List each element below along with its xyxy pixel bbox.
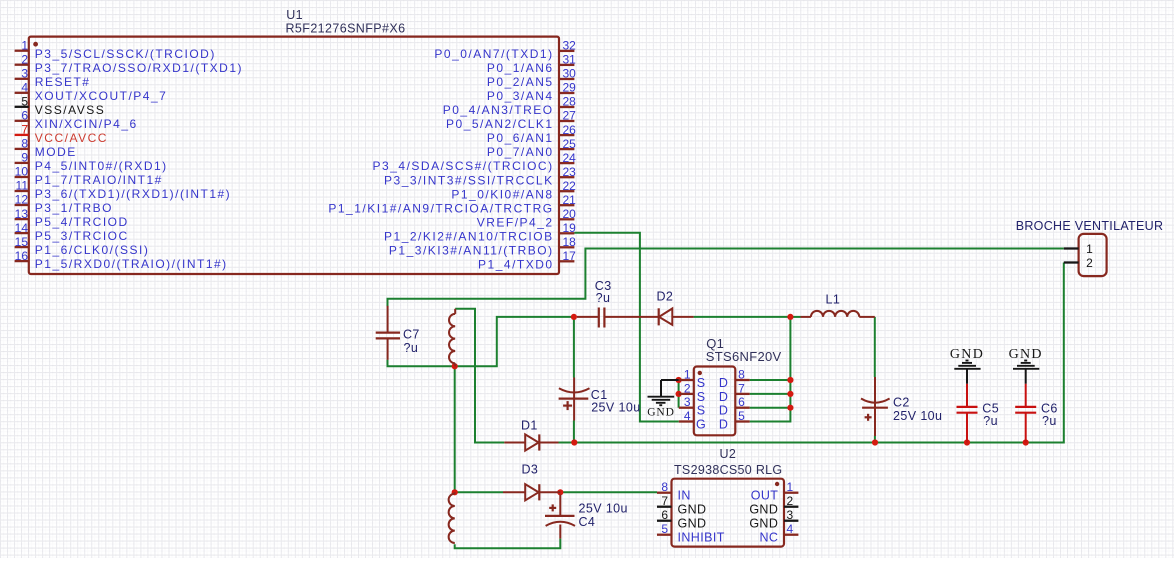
junction C6 rail node xyxy=(1023,439,1029,445)
wire: D1 cathode to node xyxy=(559,442,575,444)
wire: winding junction to D3 anode xyxy=(455,491,503,493)
U1 pin 21 (P1_1/KI1#/AN9/TRCIOA/TRCTRG) xyxy=(328,193,576,215)
U2 pin 8 (IN) xyxy=(657,480,691,503)
connector pin 2 xyxy=(1064,256,1093,270)
wire: winding L2a top to D1 anode (right then down) xyxy=(455,309,504,443)
wire: D2 cathode side to drain node xyxy=(694,316,791,318)
U1 pin 29 (P0_3/AN4) xyxy=(487,81,576,103)
svg-text:1: 1 xyxy=(684,368,691,382)
U2 value label TS2938CS50 RLG xyxy=(674,463,782,477)
U1 pin 15 (P1_6/CLK0/(SSI)) xyxy=(15,235,150,257)
Q1 value label STS6NF20V xyxy=(706,349,782,364)
C4 reference label xyxy=(579,515,596,529)
C3 reference label xyxy=(595,279,612,293)
svg-text:C4: C4 xyxy=(579,515,596,529)
svg-text:P0_6/AN1: P0_6/AN1 xyxy=(487,131,554,145)
wire: C1 bottom to rail xyxy=(573,421,575,443)
svg-text:P3_4/SDA/SCS#/(TRCIOC): P3_4/SDA/SCS#/(TRCIOC) xyxy=(373,159,554,173)
C4 value label xyxy=(579,502,628,516)
U1 pin 24 (P3_4/SDA/SCS#/(TRCIOC)) xyxy=(373,151,577,173)
svg-text:21: 21 xyxy=(563,193,577,207)
svg-text:29: 29 xyxy=(563,81,577,95)
U1 pin 8 (MODE) xyxy=(15,137,77,159)
svg-text:27: 27 xyxy=(563,109,577,123)
ground symbol at Q1 sources xyxy=(647,380,678,419)
U1 reference label xyxy=(286,8,303,22)
capacitor C5 xyxy=(957,384,978,443)
svg-text:GND: GND xyxy=(647,407,675,419)
svg-text:13: 13 xyxy=(15,207,29,221)
svg-text:10: 10 xyxy=(15,165,29,179)
svg-text:1: 1 xyxy=(1086,242,1093,256)
C5 value label xyxy=(983,414,998,428)
U1 pin 1 (P3_5/SCL/SSCK/(TRCIOD)) xyxy=(15,38,216,60)
U1 pin 31 (P0_1/AN6) xyxy=(487,53,576,75)
svg-text:C7: C7 xyxy=(403,328,420,342)
wire: L1 right corner down to C2 top xyxy=(874,317,876,377)
ground symbol above C6 xyxy=(1009,347,1043,384)
winding upper coil xyxy=(449,309,455,367)
junction drain bus pin7 xyxy=(787,391,793,397)
svg-text:D2: D2 xyxy=(657,290,674,304)
U1 pin 13 (P5_4/TRCIOD) xyxy=(15,207,129,229)
junction D1/C1 rail node xyxy=(571,439,577,445)
svg-text:P5_3/TRCIOC: P5_3/TRCIOC xyxy=(35,229,129,243)
junction drain bus pin8 xyxy=(787,377,793,383)
svg-text:D1: D1 xyxy=(521,419,538,433)
svg-text:4: 4 xyxy=(684,409,691,423)
C2 value label xyxy=(893,409,942,423)
svg-text:6: 6 xyxy=(738,395,745,409)
U1 pin 2 (P3_7/TRAO/SSO/RXD1/(TXD1)) xyxy=(15,52,243,74)
svg-text:22: 22 xyxy=(563,179,577,193)
svg-text:14: 14 xyxy=(15,221,29,235)
wire: D3 cathode node to U2 pin 8 xyxy=(560,491,657,493)
svg-text:30: 30 xyxy=(563,67,577,81)
svg-text:R5F21276SNFP#X6: R5F21276SNFP#X6 xyxy=(286,22,406,36)
svg-text:P3_6/(TXD1)/(RXD1)/(INT1#): P3_6/(TXD1)/(RXD1)/(INT1#) xyxy=(35,187,231,201)
U2 pin 6 (GND) xyxy=(657,508,706,531)
svg-text:OUT: OUT xyxy=(751,489,779,503)
connector pin 1 xyxy=(1064,242,1093,256)
capacitor C6 xyxy=(1015,384,1036,443)
svg-text:P3_5/SCL/SSCK/(TRCIOD): P3_5/SCL/SSCK/(TRCIOD) xyxy=(35,47,216,61)
wire: Q1 pin7 to drain bus xyxy=(750,393,791,395)
svg-text:L1: L1 xyxy=(826,293,841,307)
U1 pin 20 (VREF/P4_2) xyxy=(477,207,576,229)
U1 pin 18 (P1_3/KI3#/AN11/(TRBO)) xyxy=(389,235,576,257)
junction drain top node xyxy=(787,314,793,320)
svg-text:20: 20 xyxy=(563,207,577,221)
svg-text:12: 12 xyxy=(15,193,29,207)
svg-text:P1_0/KI0#/AN8: P1_0/KI0#/AN8 xyxy=(451,187,553,201)
svg-text:11: 11 xyxy=(16,179,29,193)
ground symbol above C5 xyxy=(950,347,984,384)
svg-text:24: 24 xyxy=(563,151,577,165)
U1 pin 6 (XIN/XCIN/P4_6) xyxy=(15,109,138,131)
U1 pin 3 (RESET#) xyxy=(15,67,91,89)
L1 reference label xyxy=(826,293,841,307)
svg-text:GND: GND xyxy=(678,503,707,517)
D1 reference label xyxy=(521,419,538,433)
diode D1 (cathode right) xyxy=(504,434,558,450)
svg-text:P3_3/INT3#/SSI/TRCCLK: P3_3/INT3#/SSI/TRCCLK xyxy=(384,173,554,187)
svg-text:3: 3 xyxy=(684,395,691,409)
svg-text:25V 10u: 25V 10u xyxy=(591,401,640,415)
U1 pin 32 (P0_0/AN7/(TXD1)) xyxy=(434,39,576,61)
U1 pin 12 (P3_1/TRBO) xyxy=(15,193,113,215)
Q1 pin 7 (D) xyxy=(719,381,750,403)
svg-text:P3_1/TRBO: P3_1/TRBO xyxy=(35,201,113,215)
wire: C7 bottom to winding junction and across to C3 node xyxy=(388,317,573,366)
winding lower coil xyxy=(449,492,455,543)
junction D3/C4 node xyxy=(557,489,563,495)
svg-text:P1_4/TXD0: P1_4/TXD0 xyxy=(478,257,554,271)
svg-text:1: 1 xyxy=(787,480,794,494)
svg-text:GND: GND xyxy=(678,517,707,531)
capacitor C2 polarized xyxy=(861,377,890,436)
svg-text:C2: C2 xyxy=(893,396,910,410)
Q1 pin 4 (G) xyxy=(679,409,706,431)
svg-text:GND: GND xyxy=(1009,347,1043,362)
svg-text:GND: GND xyxy=(749,517,778,531)
capacitor C7 xyxy=(376,306,400,360)
svg-text:S: S xyxy=(697,390,705,404)
svg-text:28: 28 xyxy=(563,95,577,109)
svg-text:?u: ?u xyxy=(1042,414,1057,428)
svg-text:GND: GND xyxy=(749,503,778,517)
capacitor C4 polarized xyxy=(545,495,575,539)
svg-text:IN: IN xyxy=(678,489,691,503)
wire: node VIN top rail from connector pin1 left then down to C7 top xyxy=(388,249,1064,307)
wire: Q1 source bus pins 1-2-3 xyxy=(678,380,680,408)
C3 value label xyxy=(596,291,611,305)
U1 pin 26 (P0_6/AN1) xyxy=(487,123,576,145)
Q1 pin 1 (S) xyxy=(679,368,705,390)
U1 pin 7 (VCC/AVCC) xyxy=(15,123,108,145)
U2 pin 3 (GND) xyxy=(749,508,798,531)
svg-text:P0_3/AN4: P0_3/AN4 xyxy=(487,89,554,103)
svg-text:15: 15 xyxy=(15,235,29,249)
svg-text:9: 9 xyxy=(21,151,28,165)
svg-text:?u: ?u xyxy=(404,341,419,355)
inductor L1 xyxy=(801,311,875,317)
svg-text:1: 1 xyxy=(21,38,28,52)
svg-text:P1_5/RXD0/(TRAIO)/(INT1#): P1_5/RXD0/(TRAIO)/(INT1#) xyxy=(35,257,228,271)
svg-text:S: S xyxy=(697,376,705,390)
svg-text:P1_2/KI2#/AN10/TRCIOB: P1_2/KI2#/AN10/TRCIOB xyxy=(384,229,554,243)
svg-text:2: 2 xyxy=(684,381,691,395)
U1 pin 10 (P1_7/TRAIO/INT1#) xyxy=(15,165,163,187)
U1 pin 25 (P0_7/AN0) xyxy=(487,137,576,159)
Q1 pin 5 (D) xyxy=(719,409,750,431)
capacitor C1 polarized xyxy=(559,378,590,421)
svg-text:3: 3 xyxy=(21,67,28,81)
svg-text:25V 10u: 25V 10u xyxy=(579,502,628,516)
U1 pin 22 (P1_0/KI0#/AN8) xyxy=(451,179,576,201)
svg-text:MODE: MODE xyxy=(35,145,77,159)
junction winding center tap top xyxy=(452,363,458,369)
Q1 pin 8 (D) xyxy=(719,368,750,390)
U1 pin 4 (XOUT/XCOUT/P4_7) xyxy=(15,81,168,103)
transistor Q1 STS6NF20V body xyxy=(694,367,736,436)
svg-text:8: 8 xyxy=(661,480,668,494)
svg-text:BROCHE VENTILATEUR: BROCHE VENTILATEUR xyxy=(1016,219,1164,233)
svg-text:23: 23 xyxy=(563,165,577,179)
C1 value label xyxy=(591,401,640,415)
svg-text:XIN/XCIN/P4_6: XIN/XCIN/P4_6 xyxy=(35,117,138,131)
svg-text:4: 4 xyxy=(787,522,794,536)
svg-text:25: 25 xyxy=(563,137,577,151)
svg-text:2: 2 xyxy=(787,494,794,508)
U1 pin 14 (P5_3/TRCIOC) xyxy=(15,221,129,243)
svg-text:2: 2 xyxy=(21,52,28,66)
svg-text:8: 8 xyxy=(21,137,28,151)
junction C2 rail node xyxy=(872,439,878,445)
wire: Q1 pin6 to drain bus xyxy=(750,407,791,409)
regulator U2 TS2938CS50 body xyxy=(672,479,785,547)
svg-text:P1_1/KI1#/AN9/TRCIOA/TRCTRG: P1_1/KI1#/AN9/TRCIOA/TRCTRG xyxy=(328,201,553,215)
svg-text:5: 5 xyxy=(661,522,668,536)
U2 pin 2 (GND) xyxy=(749,494,798,517)
wire: winding L2b bottom to C4 negative xyxy=(455,539,561,549)
wire: drain node to L1 left xyxy=(790,316,800,318)
U1 pin 11 (P3_6/(TXD1)/(RXD1)/(INT1#)) xyxy=(15,179,232,201)
svg-text:STS6NF20V: STS6NF20V xyxy=(706,349,782,364)
svg-text:7: 7 xyxy=(738,381,745,395)
svg-text:P1_6/CLK0/(SSI): P1_6/CLK0/(SSI) xyxy=(35,243,150,257)
C7 value label xyxy=(404,341,419,355)
svg-text:5: 5 xyxy=(21,95,28,109)
svg-text:7: 7 xyxy=(21,123,28,137)
capacitor C3 xyxy=(577,308,658,328)
svg-text:D: D xyxy=(719,376,728,390)
U1 pin 16 (P1_5/RXD0/(TRAIO)/(INT1#)) xyxy=(15,249,228,271)
svg-text:P1_7/TRAIO/INT1#: P1_7/TRAIO/INT1# xyxy=(35,173,163,187)
svg-text:VSS/AVSS: VSS/AVSS xyxy=(35,103,105,117)
svg-text:3: 3 xyxy=(787,508,794,522)
svg-text:P0_7/AN0: P0_7/AN0 xyxy=(487,145,554,159)
svg-text:P0_5/AN2/CLK1: P0_5/AN2/CLK1 xyxy=(446,117,554,131)
wire: C2 bottom to rail xyxy=(874,436,876,443)
svg-text:5: 5 xyxy=(738,409,745,423)
svg-text:31: 31 xyxy=(563,53,577,67)
U1 value label R5F21276SNFP#X6 xyxy=(286,22,406,36)
svg-text:7: 7 xyxy=(661,494,668,508)
C7 reference label xyxy=(403,328,420,342)
junction winding/D3 node xyxy=(452,489,458,495)
junction source bus pin1 xyxy=(676,377,682,383)
svg-text:25V 10u: 25V 10u xyxy=(893,409,942,423)
svg-text:VCC/AVCC: VCC/AVCC xyxy=(35,131,108,145)
svg-text:NC: NC xyxy=(759,531,778,545)
wire: Q1 drain bus xyxy=(750,317,791,422)
wire: bottom output rail to connector pin2 xyxy=(574,263,1064,443)
svg-text:P0_4/AN3/TREO: P0_4/AN3/TREO xyxy=(443,103,554,117)
svg-text:RESET#: RESET# xyxy=(35,75,91,89)
C6 reference label xyxy=(1041,401,1058,415)
svg-text:D: D xyxy=(719,390,728,404)
C5 reference label xyxy=(982,401,999,415)
U1 pin 27 (P0_5/AN2/CLK1) xyxy=(446,109,576,131)
U2 pin 5 (INHIBIT) xyxy=(657,522,725,545)
U2 pin 7 (GND) xyxy=(657,494,706,517)
wire: Q1 pin8 to drain bus xyxy=(750,379,791,381)
svg-text:6: 6 xyxy=(21,109,28,123)
Q1 pin 3 (S) xyxy=(679,395,705,417)
svg-text:32: 32 xyxy=(563,39,577,53)
D2 reference label xyxy=(657,290,674,304)
U2 pin 1 (OUT) xyxy=(751,480,799,503)
svg-text:D: D xyxy=(719,404,728,418)
svg-text:6: 6 xyxy=(661,508,668,522)
U1 pin 30 (P0_2/AN5) xyxy=(487,67,576,89)
svg-text:19: 19 xyxy=(563,221,577,235)
U2 pin 4 (NC) xyxy=(759,522,798,545)
svg-text:VREF/P4_2: VREF/P4_2 xyxy=(477,215,554,229)
svg-text:?u: ?u xyxy=(983,414,998,428)
svg-text:17: 17 xyxy=(563,249,577,263)
wire: C3 node down to C1 top xyxy=(573,317,575,378)
junction source bus pin2 xyxy=(676,391,682,397)
svg-text:S: S xyxy=(697,404,705,418)
svg-text:U2: U2 xyxy=(720,447,737,461)
svg-text:G: G xyxy=(696,417,706,431)
svg-text:26: 26 xyxy=(563,123,577,137)
svg-text:4: 4 xyxy=(21,81,28,95)
junction node C3/C1 xyxy=(571,314,577,320)
U1 pin 23 (P3_3/INT3#/SSI/TRCCLK) xyxy=(384,165,576,187)
C2 reference label xyxy=(893,396,910,410)
C6 value label xyxy=(1042,414,1057,428)
U1 pin 9 (P4_5/INT0#/(RXD1)) xyxy=(15,151,168,173)
svg-text:INHIBIT: INHIBIT xyxy=(678,531,725,545)
svg-text:16: 16 xyxy=(15,249,29,263)
svg-text:TS2938CS50 RLG: TS2938CS50 RLG xyxy=(674,463,782,477)
svg-text:U1: U1 xyxy=(286,8,303,22)
svg-text:P0_0/AN7/(TXD1): P0_0/AN7/(TXD1) xyxy=(434,47,553,61)
D3 reference label xyxy=(522,463,539,477)
svg-text:P3_7/TRAO/SSO/RXD1/(TXD1): P3_7/TRAO/SSO/RXD1/(TXD1) xyxy=(35,61,243,75)
Q1 reference label xyxy=(706,336,724,351)
svg-text:GND: GND xyxy=(950,347,984,362)
U2 reference label xyxy=(720,447,737,461)
junction drain bus pin6 xyxy=(787,405,793,411)
svg-text:2: 2 xyxy=(1086,256,1093,270)
svg-text:8: 8 xyxy=(738,368,745,382)
svg-text:D: D xyxy=(719,417,728,431)
svg-text:P1_3/KI3#/AN11/(TRBO): P1_3/KI3#/AN11/(TRBO) xyxy=(389,243,554,257)
svg-text:P5_4/TRCIOD: P5_4/TRCIOD xyxy=(35,215,129,229)
U1 pin 19 (P1_2/KI2#/AN10/TRCIOB) xyxy=(384,221,576,243)
svg-text:18: 18 xyxy=(563,235,577,249)
connector BROCHE VENTILATEUR body xyxy=(1079,234,1107,276)
Q1 pin 6 (D) xyxy=(719,395,750,417)
U1 pin 17 (P1_4/TXD0) xyxy=(478,249,576,271)
svg-text:?u: ?u xyxy=(596,291,611,305)
junction C5 rail node xyxy=(964,439,970,445)
C1 reference label xyxy=(591,388,608,402)
connector label BROCHE VENTILATEUR xyxy=(1016,219,1164,233)
IC U1 R5F21276SNFP#X6 body xyxy=(29,37,559,274)
diode D3 (cathode right) xyxy=(503,484,560,500)
svg-text:P4_5/INT0#/(RXD1): P4_5/INT0#/(RXD1) xyxy=(35,159,168,173)
U1 pin 28 (P0_4/AN3/TREO) xyxy=(443,95,576,117)
U1 pin 5 (VSS/AVSS) xyxy=(15,95,106,117)
svg-text:P0_1/AN6: P0_1/AN6 xyxy=(487,61,554,75)
wire: U1 pin19 to Q1 gate (right, down, right) xyxy=(574,233,678,422)
Q1 pin 2 (S) xyxy=(679,381,705,403)
wire: center tap between windings xyxy=(454,366,456,492)
svg-text:D3: D3 xyxy=(522,463,539,477)
svg-text:XOUT/XCOUT/P4_7: XOUT/XCOUT/P4_7 xyxy=(35,89,168,103)
svg-text:P0_2/AN5: P0_2/AN5 xyxy=(487,75,554,89)
diode D2 (cathode left) xyxy=(659,308,694,325)
